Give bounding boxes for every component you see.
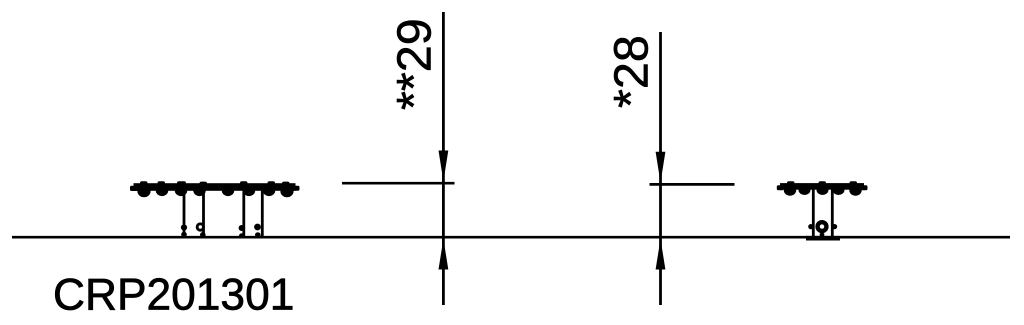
left beam top bar (130, 183, 300, 191)
dimension 28 down arrowhead (656, 152, 666, 183)
right beam leg 2 (831, 189, 834, 238)
dimension 29 line (442, 12, 445, 305)
right beam top bar (777, 183, 868, 190)
dimension 28 up arrowhead (656, 239, 666, 270)
right beam bottom scallops (784, 185, 862, 196)
dimension 29 down arrowhead (439, 151, 449, 182)
ground line (12, 236, 1010, 239)
left beam leg 2 (202, 190, 205, 238)
right beam leg 1 (812, 189, 815, 238)
dimension 29 up arrowhead (439, 239, 449, 270)
svg-text:CRP201301: CRP201301 (53, 271, 294, 320)
left beam top nubs (140, 181, 290, 185)
left beam leg 3 (242, 190, 245, 238)
dimension 28 line (659, 32, 662, 305)
right beam hub grommet (808, 220, 837, 237)
dimension 29 extension tick (342, 182, 455, 185)
svg-text:*28: *28 (605, 35, 659, 108)
left beam leg 1 (183, 190, 186, 238)
left beam leg 4 (261, 190, 264, 238)
dimension 28 extension tick (650, 183, 735, 186)
left beam leg bolts (181, 222, 261, 238)
left beam bottom scallops (137, 185, 293, 197)
right beam top nubs (787, 181, 857, 185)
right beam base plate (806, 236, 840, 241)
svg-text:**29: **29 (388, 18, 442, 110)
